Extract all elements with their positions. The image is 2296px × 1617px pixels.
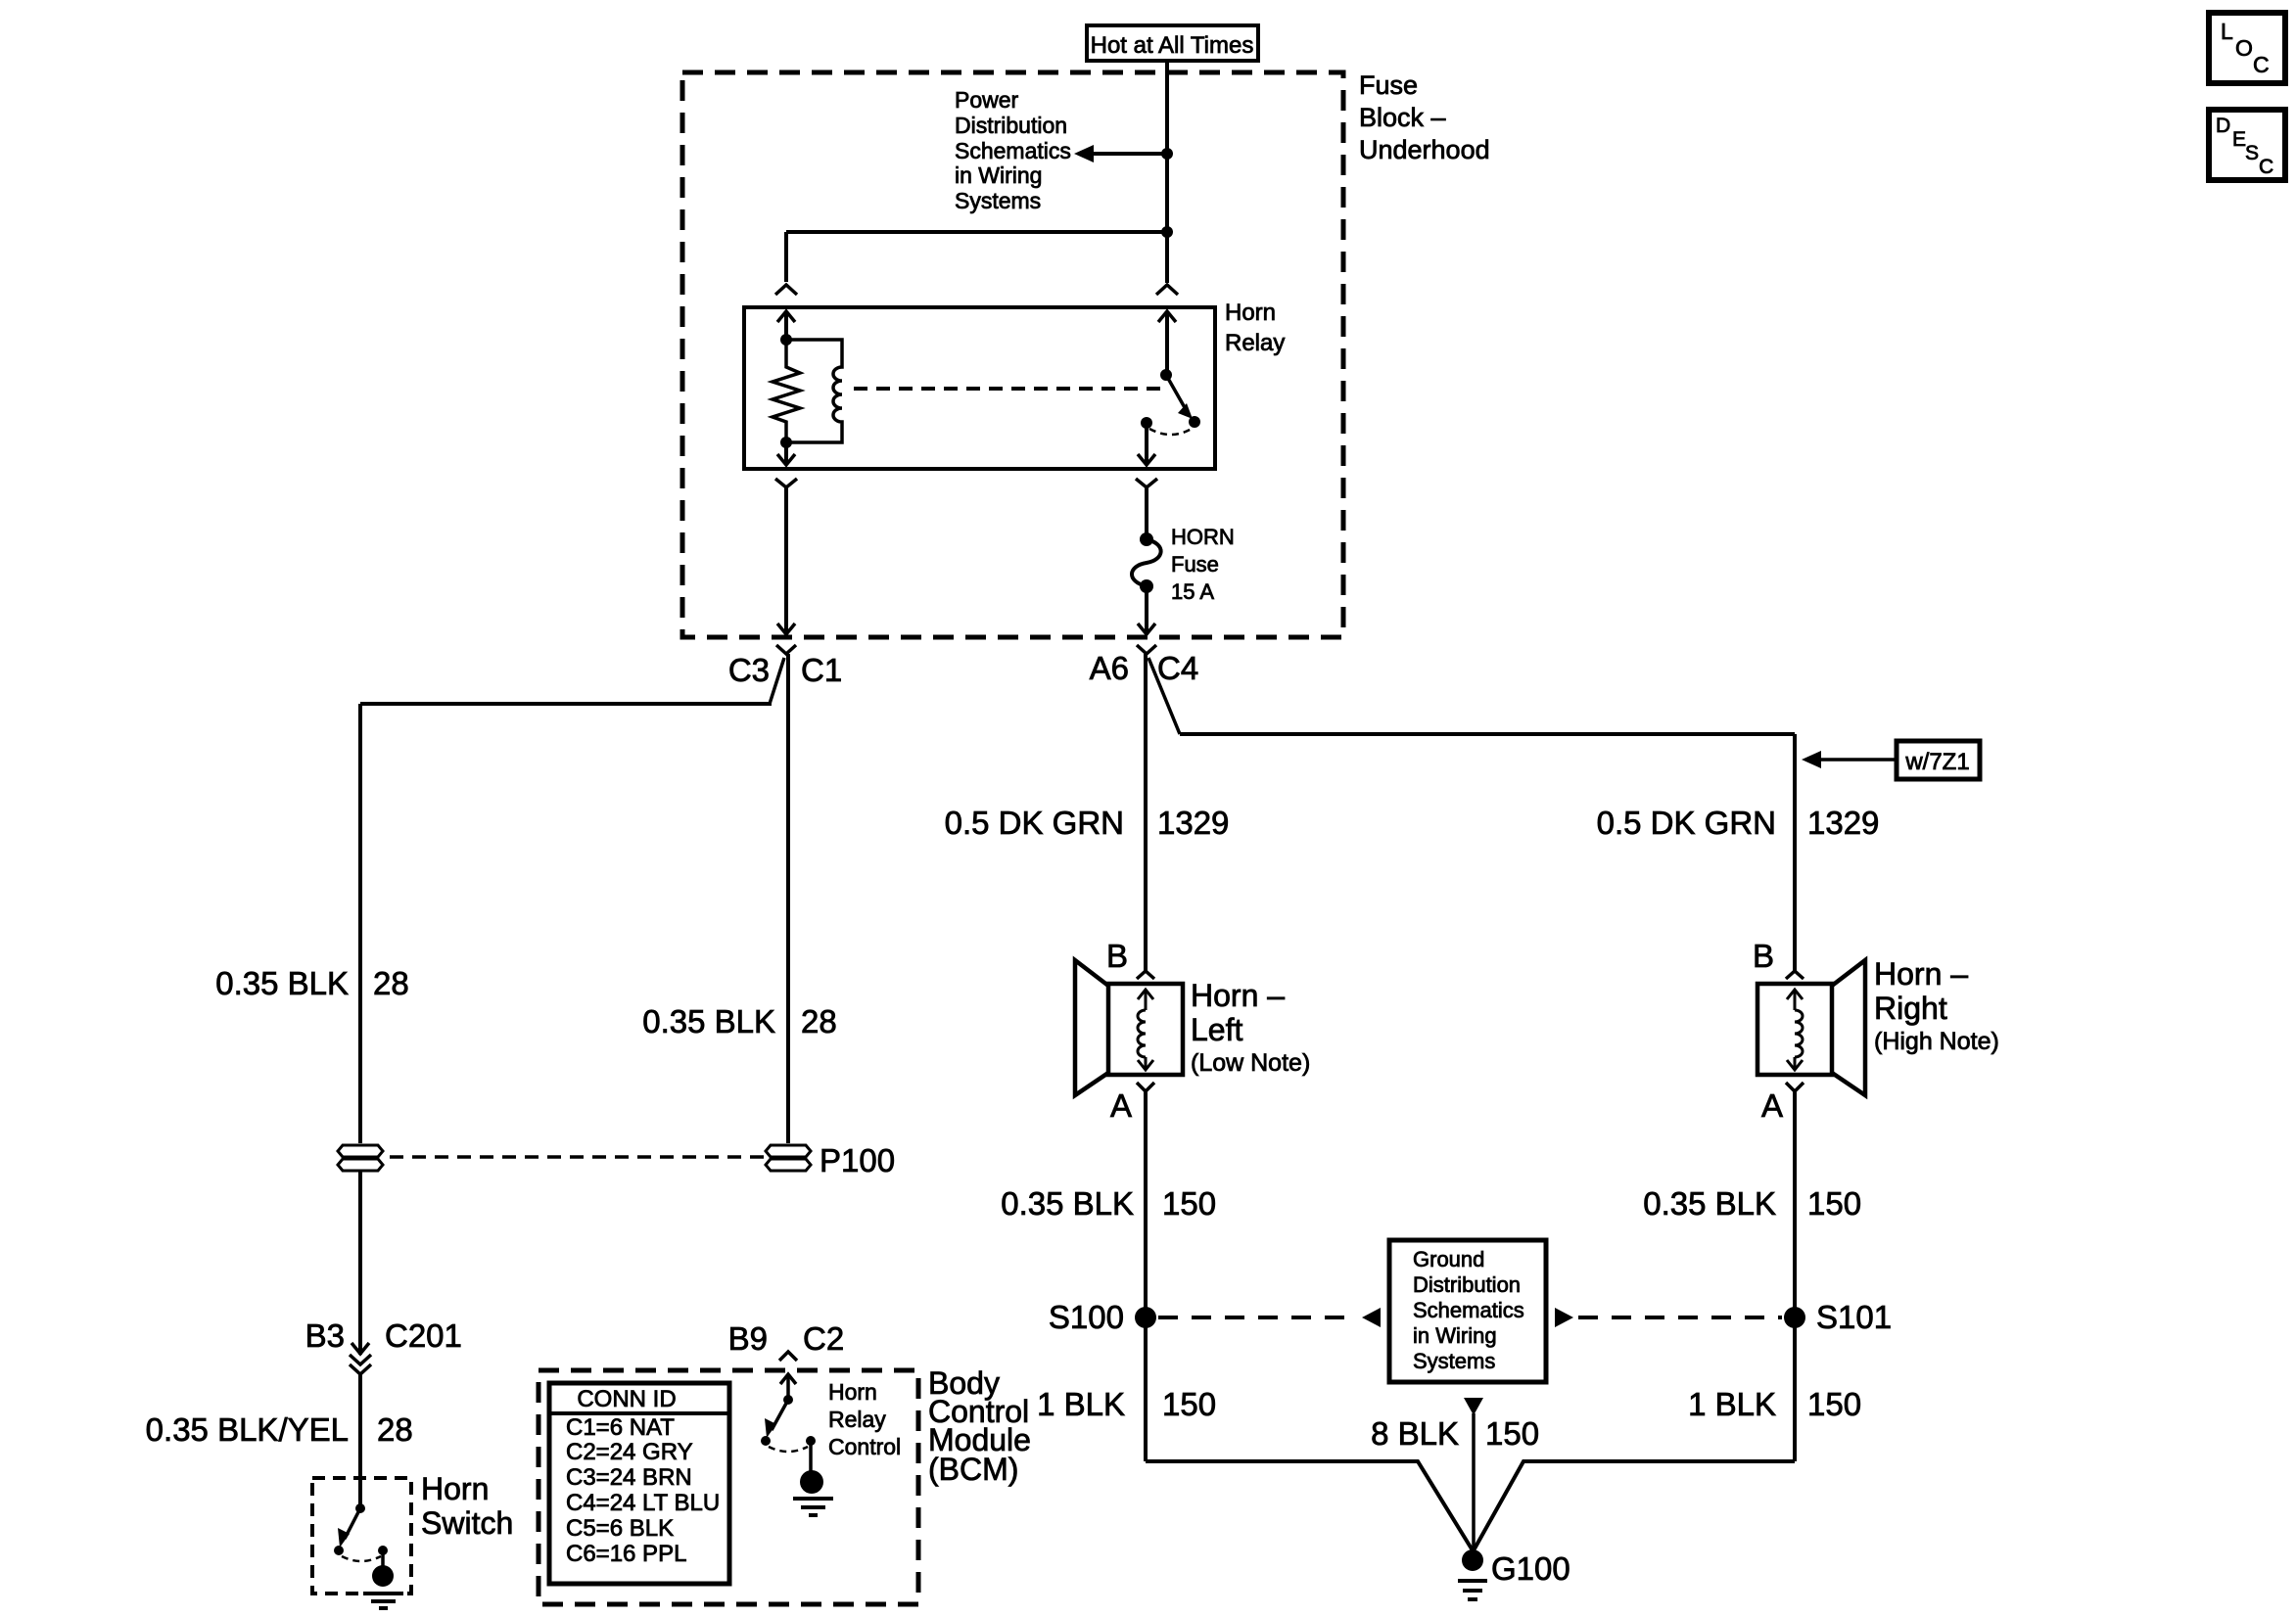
Hot at All Times box — [1087, 25, 1258, 61]
svg-text:B: B — [1106, 938, 1128, 974]
splice S100 — [1135, 1307, 1156, 1328]
svg-text:Control: Control — [828, 1434, 901, 1459]
svg-text:150: 150 — [1485, 1415, 1539, 1452]
label Horn - Right (High Note) — [1874, 956, 1999, 1055]
svg-text:C2: C2 — [803, 1320, 844, 1357]
label Fuse Block - Underhood — [1359, 70, 1490, 164]
horn left symbol — [1075, 960, 1183, 1095]
wire C3 diagonal — [770, 658, 784, 704]
relay switch pivot — [1160, 369, 1172, 381]
label Power Distribution Schematics in Wiring Systems — [955, 87, 1071, 213]
label Horn Relay — [1225, 300, 1285, 356]
svg-text:Horn: Horn — [421, 1471, 489, 1506]
splice S101 — [1784, 1307, 1805, 1328]
horn relay control switch (BCM internal) — [761, 1374, 816, 1471]
svg-text:Hot at All Times: Hot at All Times — [1091, 32, 1254, 59]
svg-text:C3=24 BRN: C3=24 BRN — [566, 1464, 692, 1491]
label 1 BLK 150 (left) — [1037, 1386, 1216, 1422]
svg-text:Distribution: Distribution — [955, 113, 1067, 138]
svg-text:(Low Note): (Low Note) — [1191, 1049, 1310, 1077]
svg-text:B: B — [1753, 938, 1774, 974]
svg-text:Fuse: Fuse — [1359, 70, 1418, 100]
ground (horn switch) — [363, 1565, 403, 1608]
label 1 BLK 150 (right) — [1688, 1386, 1861, 1422]
wire right horn down to S101 — [1793, 1091, 1797, 1461]
svg-text:w/7Z1: w/7Z1 — [1904, 749, 1969, 775]
svg-text:0.35 BLK/YEL: 0.35 BLK/YEL — [146, 1411, 349, 1448]
wire relay output to fuse — [1145, 487, 1148, 536]
connector P100 pass-through (left) — [338, 1145, 383, 1171]
wire left branch below P100 — [358, 1171, 362, 1355]
connector A6/C4 chevron — [1137, 645, 1156, 654]
label 0.35 BLK 28 (middle) — [642, 1003, 837, 1039]
connector chevron relay left pin top — [775, 285, 797, 295]
svg-text:150: 150 — [1162, 1185, 1216, 1222]
label Horn - Left (Low Note) — [1191, 978, 1310, 1077]
svg-text:G100: G100 — [1491, 1550, 1570, 1587]
svg-text:1 BLK: 1 BLK — [1688, 1386, 1776, 1422]
resistor (relay coil suppression) — [773, 340, 800, 442]
svg-text:B9: B9 — [728, 1320, 768, 1357]
svg-text:C: C — [2253, 52, 2270, 77]
svg-text:Horn –: Horn – — [1191, 978, 1285, 1013]
LOC tag box — [2209, 13, 2285, 83]
svg-text:150: 150 — [1807, 1386, 1861, 1422]
svg-text:Distribution: Distribution — [1413, 1272, 1521, 1297]
wire fuse down — [1138, 586, 1155, 634]
svg-text:O: O — [2235, 35, 2253, 61]
svg-text:C3: C3 — [728, 652, 770, 688]
svg-text:C: C — [2259, 156, 2273, 178]
w/7Z1 tag — [1802, 741, 1980, 779]
CONN ID table — [549, 1383, 729, 1584]
svg-text:0.35 BLK: 0.35 BLK — [1643, 1185, 1776, 1222]
svg-text:28: 28 — [373, 965, 409, 1001]
pin arrow down (relay output) — [1138, 423, 1155, 465]
svg-text:Underhood: Underhood — [1359, 135, 1490, 164]
svg-text:0.5 DK GRN: 0.5 DK GRN — [945, 805, 1124, 841]
svg-text:C4: C4 — [1157, 650, 1198, 686]
svg-text:1329: 1329 — [1157, 805, 1229, 841]
svg-text:B3: B3 — [305, 1317, 345, 1354]
svg-text:C1=6 NAT: C1=6 NAT — [566, 1414, 675, 1441]
ground distribution schematics box — [1389, 1240, 1546, 1382]
svg-text:0.5 DK GRN: 0.5 DK GRN — [1597, 805, 1776, 841]
svg-text:E: E — [2232, 128, 2246, 151]
svg-text:(BCM): (BCM) — [928, 1452, 1018, 1487]
pin arrow up (relay common) — [1158, 311, 1176, 375]
svg-text:C201: C201 — [385, 1317, 462, 1354]
svg-text:A: A — [1761, 1087, 1783, 1124]
svg-text:15 A: 15 A — [1171, 579, 1214, 604]
connector chevron relay right pin bottom — [1136, 479, 1157, 487]
connector B9/C2 chevron — [779, 1352, 797, 1361]
svg-text:P100: P100 — [820, 1142, 895, 1178]
label HORN Fuse 15 A — [1171, 525, 1235, 604]
wire bottom right to G100 — [1474, 1461, 1795, 1550]
svg-text:Horn: Horn — [1225, 300, 1276, 326]
horn relay box — [744, 307, 1215, 469]
connector C3/C1 chevron — [776, 645, 796, 654]
svg-text:Relay: Relay — [1225, 330, 1285, 356]
label Body Control Module (BCM) — [928, 1365, 1031, 1487]
DESC tag box — [2209, 110, 2285, 180]
connector B3/C201 chevrons — [350, 1343, 371, 1374]
wire C3 branch horizontal — [360, 702, 772, 706]
svg-text:Fuse: Fuse — [1171, 552, 1219, 577]
wire hot feed vertical — [1165, 61, 1169, 283]
wire A6 down to left horn — [1144, 654, 1148, 971]
wire right branch down — [1793, 734, 1797, 971]
svg-text:1329: 1329 — [1807, 805, 1879, 841]
fuse block dashed box (Fuse Block - Underhood) — [682, 72, 1343, 637]
svg-text:C4=24 LT BLU: C4=24 LT BLU — [566, 1490, 720, 1516]
pin arrow down (relay coil -) — [777, 442, 795, 465]
label 8 BLK 150 — [1371, 1415, 1539, 1452]
label 0.35 BLK 150 (right) — [1643, 1185, 1861, 1222]
svg-text:Horn: Horn — [828, 1379, 877, 1405]
svg-text:150: 150 — [1162, 1386, 1216, 1422]
dashed actuation link coil to switch — [854, 387, 1166, 391]
wire bottom left to G100 — [1146, 1461, 1473, 1550]
svg-text:Relay: Relay — [828, 1407, 886, 1432]
svg-text:in Wiring: in Wiring — [1413, 1323, 1497, 1348]
label 0.35 BLK 28 (left) — [215, 965, 409, 1001]
svg-text:1 BLK: 1 BLK — [1037, 1386, 1125, 1422]
svg-text:(High Note): (High Note) — [1874, 1028, 1999, 1055]
svg-text:C1: C1 — [801, 652, 842, 688]
svg-text:0.35 BLK: 0.35 BLK — [642, 1003, 775, 1039]
svg-text:28: 28 — [377, 1411, 413, 1448]
arrow left (ground distribution) — [1362, 1308, 1381, 1327]
wire left branch down — [358, 704, 362, 1143]
relay switch contact (output) — [1141, 417, 1152, 429]
fuse HORN 15A — [1132, 532, 1161, 593]
svg-text:L: L — [2221, 19, 2233, 44]
svg-text:Block –: Block – — [1359, 103, 1446, 132]
wire C4 branch horizontal — [1180, 732, 1795, 736]
label 0.5 DK GRN 1329 (right) — [1597, 805, 1880, 841]
wire box to G100 — [1472, 1413, 1476, 1554]
svg-text:Systems: Systems — [955, 188, 1041, 213]
svg-text:A: A — [1110, 1087, 1132, 1124]
relay switch arm — [1166, 375, 1193, 419]
svg-text:in Wiring: in Wiring — [955, 162, 1042, 188]
dashed link S100 to ground distribution — [1158, 1316, 1357, 1319]
wire left pin drop — [784, 232, 788, 282]
svg-text:A6: A6 — [1090, 650, 1129, 686]
wire left horn down to S100 — [1144, 1091, 1148, 1461]
svg-text:Power: Power — [955, 87, 1019, 113]
svg-text:150: 150 — [1807, 1185, 1861, 1222]
svg-text:0.35 BLK: 0.35 BLK — [215, 965, 349, 1001]
node junction — [1161, 226, 1173, 238]
svg-text:C6=16 PPL: C6=16 PPL — [566, 1541, 686, 1567]
label Horn Relay Control — [828, 1379, 901, 1459]
node coil bottom — [780, 437, 792, 448]
svg-text:Horn –: Horn – — [1874, 956, 1968, 992]
svg-text:S101: S101 — [1816, 1299, 1892, 1335]
dashed contact arc — [1149, 429, 1192, 435]
svg-text:C5=6 BLK: C5=6 BLK — [566, 1515, 674, 1542]
svg-text:Schematics: Schematics — [1413, 1298, 1524, 1322]
wire relay C3 pin down — [777, 487, 795, 634]
relay coil winding — [786, 340, 842, 442]
svg-text:CONN ID: CONN ID — [577, 1386, 676, 1412]
svg-text:Systems: Systems — [1413, 1349, 1495, 1373]
connector P100 pass-through (right) — [766, 1145, 811, 1171]
dashed P100 link — [390, 1155, 764, 1159]
svg-text:D: D — [2216, 115, 2230, 137]
label 0.35 BLK/YEL 28 — [146, 1411, 413, 1448]
svg-text:S: S — [2245, 142, 2259, 164]
label 0.5 DK GRN 1329 (left) — [945, 805, 1230, 841]
arrow down from ground distribution box — [1464, 1398, 1483, 1415]
svg-text:Switch: Switch — [421, 1505, 513, 1541]
horn switch symbol — [334, 1503, 388, 1566]
node coil top — [780, 334, 792, 346]
wire to horn switch — [358, 1374, 362, 1508]
svg-text:S100: S100 — [1049, 1299, 1124, 1335]
dashed link to S101 — [1578, 1316, 1782, 1319]
label Horn Switch — [421, 1471, 513, 1541]
svg-text:Ground: Ground — [1413, 1247, 1484, 1271]
connector chevron relay left pin bottom — [775, 479, 797, 487]
connector chevron relay right pin top — [1156, 285, 1178, 295]
svg-text:C2=24 GRY: C2=24 GRY — [566, 1439, 693, 1465]
arrow right (ground distribution) — [1555, 1308, 1573, 1327]
svg-text:0.35 BLK: 0.35 BLK — [1001, 1185, 1134, 1222]
relay switch contact (NO) — [1189, 416, 1200, 428]
wire arrow to power distribution — [1074, 145, 1167, 162]
svg-text:Right: Right — [1874, 991, 1947, 1026]
wire horizontal to relay left pin — [786, 230, 1167, 234]
ground (BCM) — [793, 1470, 833, 1515]
horn switch dashed box — [312, 1478, 411, 1594]
svg-text:HORN: HORN — [1171, 525, 1235, 549]
wire C1 down to BCM — [786, 654, 790, 1143]
label 0.35 BLK 150 (left) — [1001, 1185, 1216, 1222]
ground G100 — [1458, 1549, 1487, 1599]
svg-text:Schematics: Schematics — [955, 138, 1071, 163]
BCM dashed box — [539, 1370, 918, 1604]
svg-text:28: 28 — [801, 1003, 837, 1039]
svg-text:Left: Left — [1191, 1012, 1242, 1047]
svg-text:8 BLK: 8 BLK — [1371, 1415, 1459, 1452]
node junction on hot wire — [1161, 148, 1173, 160]
pin arrow up (relay coil +) — [777, 311, 795, 340]
horn right symbol — [1757, 960, 1865, 1095]
wire C4 diagonal — [1148, 658, 1180, 734]
